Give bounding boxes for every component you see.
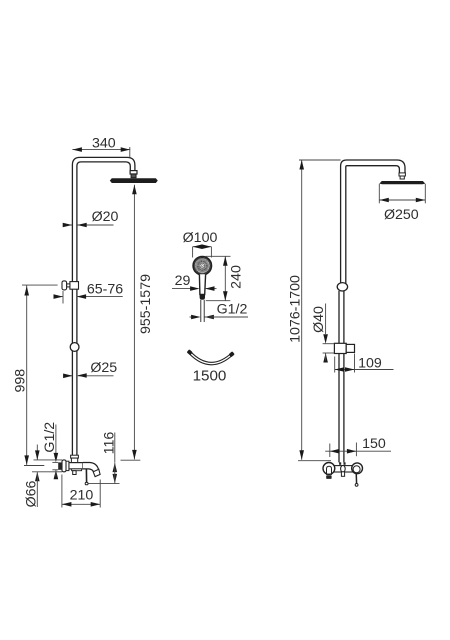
right shower head connector nut [399, 173, 405, 179]
left mixer lever [85, 469, 88, 485]
left mixer body [69, 463, 83, 475]
right mixer center connection [339, 462, 346, 476]
left overhead shower disc [110, 178, 158, 183]
dimension 998 [13, 286, 45, 466]
dimension 150 [325, 436, 391, 457]
svg-text:1500: 1500 [193, 367, 227, 384]
left mixer wall escutcheon [62, 460, 69, 472]
right column riser pipe and top arm [339, 160, 405, 462]
dimension 955-1579 [121, 185, 154, 460]
left mixer top nut [71, 455, 79, 462]
svg-text:340: 340 [92, 136, 116, 152]
dimension 116 [89, 432, 120, 484]
right overhead shower disc [379, 181, 425, 184]
right riser ball joint [337, 283, 347, 291]
dimension Ø66 [23, 445, 62, 508]
dimension Ø25 [63, 360, 117, 378]
right mixer left port [323, 463, 335, 479]
hose stub [201, 300, 204, 322]
hand shower handle [199, 274, 205, 300]
left mixer spout [83, 463, 100, 477]
dimension 1076-1700 [288, 160, 341, 461]
left riser ball joint [70, 343, 79, 352]
svg-text:Ø250: Ø250 [384, 207, 419, 223]
dimension Ø40 [311, 304, 334, 363]
right mixer lever [355, 473, 358, 487]
left shower head connector nut [130, 171, 137, 178]
svg-text:150: 150 [362, 436, 386, 452]
dimension 240 [206, 256, 245, 300]
right mixer right port [352, 463, 363, 474]
svg-text:Ø25: Ø25 [90, 360, 117, 376]
right mixer body [330, 466, 353, 472]
svg-text:29: 29 [175, 273, 191, 289]
svg-text:Ø40: Ø40 [311, 306, 327, 333]
dimension 109 [335, 354, 394, 373]
left column riser pipe and top arm [72, 157, 134, 459]
svg-text:G1/2: G1/2 [42, 422, 58, 453]
dimension G1/2 left [42, 422, 58, 480]
svg-text:240: 240 [228, 265, 244, 289]
label 1500 [193, 367, 227, 384]
svg-text:116: 116 [101, 432, 117, 455]
svg-text:109: 109 [358, 355, 382, 371]
svg-text:65-76: 65-76 [87, 281, 123, 297]
dimension G1/2 middle [190, 302, 249, 320]
svg-text:210: 210 [70, 487, 94, 503]
hand shower head [193, 257, 211, 275]
svg-text:955-1579: 955-1579 [138, 274, 154, 334]
dimension 29 [172, 273, 217, 291]
dimension Ø100 [183, 230, 218, 258]
svg-text:Ø100: Ø100 [183, 230, 218, 246]
svg-text:998: 998 [13, 369, 29, 393]
svg-text:G1/2: G1/2 [217, 302, 248, 318]
dimension Ø20 [63, 209, 119, 227]
slider bracket [334, 343, 354, 353]
reference line knob center [22, 284, 58, 286]
wall bracket with knob [62, 281, 79, 290]
dimension 340 [72, 136, 130, 158]
dimension Ø250 [379, 184, 425, 223]
svg-text:Ø66: Ø66 [23, 480, 39, 507]
dimension 210 [62, 475, 100, 508]
svg-text:Ø20: Ø20 [92, 209, 119, 225]
svg-text:1076-1700: 1076-1700 [288, 275, 304, 343]
shower hose [187, 349, 235, 365]
dimension 65-76 [54, 281, 124, 303]
left mixer inlet nipple [58, 462, 62, 469]
